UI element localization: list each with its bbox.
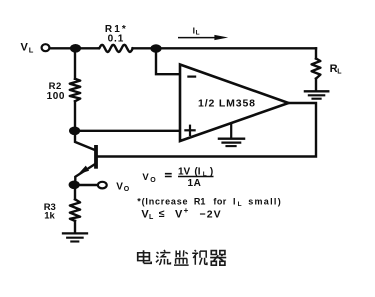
svg-text:0.1: 0.1 — [108, 33, 125, 44]
svg-text:V: V — [175, 208, 183, 220]
svg-text:L: L — [196, 30, 200, 37]
svg-text:(I: (I — [194, 166, 200, 177]
svg-text:1V: 1V — [178, 166, 191, 177]
svg-text:L: L — [149, 214, 154, 221]
svg-text:V: V — [116, 181, 123, 192]
svg-text:O: O — [150, 177, 156, 184]
svg-text:R1: R1 — [194, 196, 206, 206]
svg-text:): ) — [210, 166, 213, 177]
svg-text:O: O — [124, 186, 130, 193]
svg-text:for: for — [213, 196, 226, 206]
svg-text:100: 100 — [47, 91, 65, 102]
svg-text:L: L — [238, 201, 242, 208]
svg-text:L: L — [337, 68, 342, 75]
svg-text:V: V — [142, 172, 149, 183]
svg-text:V: V — [21, 41, 29, 53]
svg-text:1/2 LM358: 1/2 LM358 — [198, 97, 256, 109]
svg-text:R2: R2 — [49, 81, 62, 92]
svg-text:I: I — [233, 196, 236, 206]
svg-text:small): small) — [248, 196, 282, 206]
svg-text:1A: 1A — [188, 178, 202, 189]
svg-text:−2V: −2V — [200, 208, 222, 220]
svg-text:≤: ≤ — [159, 208, 165, 220]
svg-text:*(Increase: *(Increase — [137, 196, 188, 206]
svg-text:L: L — [29, 46, 34, 55]
svg-text:+: + — [184, 206, 189, 215]
svg-text:1k: 1k — [44, 210, 55, 221]
